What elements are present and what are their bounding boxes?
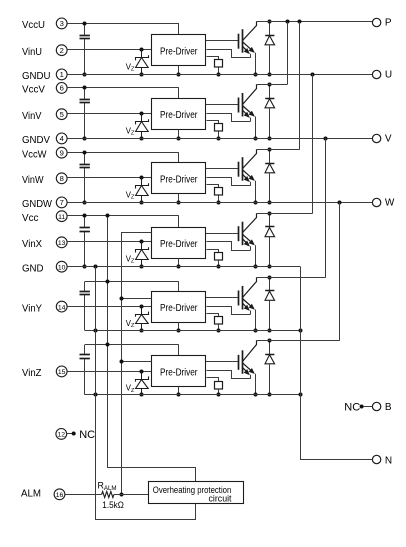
wire GNDU / U output row — [67, 74, 372, 76]
capacitor C4 — [80, 216, 90, 266]
junction diode top X — [268, 212, 272, 216]
NC node at terminal B — [344, 401, 372, 413]
junction V row / Y collector drop — [324, 137, 328, 141]
wire collector rail X — [256, 213, 312, 215]
svg-text:GNDU: GNDU — [22, 71, 51, 82]
wire VccX row — [67, 215, 179, 217]
junction cap bottom X — [83, 265, 87, 269]
wire pre-driver gnd stub W — [178, 194, 180, 202]
junction emitter-gnd Z — [254, 393, 258, 397]
capacitor C3 — [80, 152, 90, 202]
transistor IGBT Q4 — [239, 214, 257, 251]
wire VinU row — [67, 49, 151, 51]
wire Y emitter/gnd row — [85, 330, 301, 332]
svg-text:VccV: VccV — [22, 85, 45, 96]
overheating protection circuit — [149, 482, 244, 504]
junction diode bottom X — [268, 265, 272, 269]
capacitor C2 — [80, 88, 90, 139]
svg-text:14: 14 — [58, 304, 66, 311]
svg-text:VinZ: VinZ — [22, 368, 42, 379]
svg-text:Pre-Driver: Pre-Driver — [160, 303, 198, 314]
wire Vcc feed Z — [85, 344, 179, 346]
junction resistor-gnd X — [217, 265, 221, 269]
wire VinX row — [67, 241, 151, 243]
svg-text:VccU: VccU — [22, 20, 45, 31]
pin 15 label VinZ — [22, 366, 67, 379]
pin 1 label GNDU — [22, 69, 67, 82]
pin 14 label VinY — [22, 301, 67, 314]
wire emitter Z — [255, 374, 257, 395]
zener diode Vz V — [136, 114, 149, 138]
terminal N — [372, 455, 392, 466]
svg-text:ALM: ALM — [21, 489, 41, 500]
junction resistor-gnd U — [217, 73, 221, 77]
svg-text:11: 11 — [58, 214, 65, 221]
wire GNDW / W output row — [67, 202, 372, 204]
junction Vcc bus / Y feed — [106, 280, 110, 284]
wire pre-driver gnd stub Y — [178, 322, 180, 330]
wire GND row (pin 10) — [67, 266, 300, 268]
zener diode Vz U — [136, 50, 149, 74]
diode D1 — [265, 22, 275, 75]
wire emitter U — [255, 53, 257, 74]
svg-text:VinV: VinV — [22, 111, 42, 122]
svg-text:P: P — [385, 18, 392, 29]
svg-text:6: 6 — [60, 84, 64, 93]
wire gate drive W — [206, 168, 238, 170]
terminal U — [372, 70, 392, 81]
pin 6 label VccV — [22, 83, 67, 96]
junction N bus / Y row — [299, 329, 303, 333]
wire VccV row — [67, 87, 179, 89]
svg-text:7: 7 — [60, 198, 64, 207]
svg-text:15: 15 — [58, 369, 66, 376]
wire VinV row — [67, 113, 151, 115]
diode D2 — [265, 85, 275, 139]
junction diode bottom Y — [268, 329, 272, 333]
wire P to W-phase collector — [299, 22, 301, 150]
svg-text:VinY: VinY — [22, 303, 42, 314]
capacitor C1 — [80, 23, 90, 74]
wire VccU row — [67, 23, 179, 25]
wire gate drive Z — [206, 361, 238, 363]
junction alarm / ALM row — [120, 493, 124, 497]
junction zener top V — [140, 112, 144, 116]
op-amp pre-driver U6 — [152, 356, 206, 387]
junction gnd stub Y — [177, 329, 181, 333]
diode D6 — [265, 341, 275, 395]
wire alarm tap Z — [122, 361, 152, 363]
svg-text:VccW: VccW — [22, 150, 47, 161]
svg-text:Pre-Driver: Pre-Driver — [160, 239, 198, 250]
junction cap top W — [83, 151, 87, 155]
junction zener bottom U — [140, 73, 144, 77]
svg-text:13: 13 — [58, 240, 66, 247]
pin 11 label Vcc — [22, 211, 67, 224]
junction diode bottom W — [268, 201, 272, 205]
pin 2 label VinU — [22, 45, 67, 58]
diode D4 — [265, 213, 275, 266]
wire gate drive Y — [206, 297, 238, 299]
svg-text:N: N — [385, 456, 392, 467]
junction GND bus start — [94, 265, 98, 269]
resistor gate U — [207, 57, 223, 75]
resistor gate Z — [207, 378, 223, 395]
junction zener top Y — [140, 305, 144, 309]
junction alarm / Y tap — [120, 297, 124, 301]
junction Vcc bus / Z feed — [106, 343, 110, 347]
svg-text:Pre-Driver: Pre-Driver — [160, 46, 198, 57]
wire sense return X — [207, 242, 251, 251]
diode D5 — [265, 277, 275, 330]
svg-text:1.5kΩ: 1.5kΩ — [102, 500, 124, 510]
wire Vcc bus (low side) — [108, 216, 196, 482]
junction P rail / W-phase drop — [298, 20, 302, 24]
op-amp pre-driver U1 — [152, 35, 206, 66]
junction cap bottom V — [83, 137, 87, 141]
junction diode top V — [268, 83, 272, 87]
junction alarm / Z tap — [120, 360, 124, 364]
svg-text:4: 4 — [60, 134, 64, 143]
pin 4 label GNDV — [22, 133, 67, 146]
terminal W — [372, 198, 395, 209]
wire collector rail V — [256, 84, 287, 86]
junction zener bottom V — [140, 137, 144, 141]
wire sense return Z — [207, 371, 251, 379]
wire pre-driver gnd stub X — [178, 258, 180, 266]
junction gnd stub U — [177, 73, 181, 77]
svg-text:2: 2 — [60, 46, 64, 55]
junction cap top V — [83, 86, 87, 90]
junction cap top X — [83, 214, 87, 218]
wire emitter W — [255, 181, 257, 202]
junction N bus / Z row — [299, 393, 303, 397]
svg-text:GNDW: GNDW — [22, 199, 52, 210]
wire gate drive U — [206, 40, 238, 42]
resistor gate V — [207, 121, 223, 139]
junction emitter-gnd V — [254, 137, 258, 141]
wire gate drive X — [206, 233, 238, 235]
zener diode Vz W — [136, 178, 149, 202]
wire GND bus (low side) — [96, 267, 196, 520]
transistor IGBT Q3 — [239, 150, 257, 186]
junction resistor-gnd W — [217, 201, 221, 205]
zener diode Vz X — [136, 242, 149, 266]
junction gnd stub W — [177, 201, 181, 205]
junction Vcc bus start — [106, 214, 110, 218]
junction P rail / V-phase drop — [286, 20, 290, 24]
op-amp pre-driver U3 — [152, 163, 206, 194]
wire pre-driver gnd stub U — [178, 66, 180, 74]
svg-text:B: B — [385, 402, 392, 413]
wire sense return Y — [207, 307, 251, 315]
junction zener top Z — [140, 370, 144, 374]
wire Vcc stub into pre-driver X — [178, 216, 180, 228]
junction diode bottom V — [268, 137, 272, 141]
wire U to X collector — [312, 74, 314, 213]
junction gnd bus / Y row — [94, 329, 98, 333]
junction gnd stub V — [177, 137, 181, 141]
junction resistor-gnd V — [217, 137, 221, 141]
junction cap bottom U — [83, 73, 87, 77]
wire Vcc stub into pre-driver W — [178, 152, 180, 163]
svg-text:3: 3 — [60, 19, 64, 28]
wire collector rail Y — [256, 277, 326, 279]
junction zener top W — [140, 176, 144, 180]
wire gate drive V — [206, 104, 238, 106]
op-amp pre-driver U5 — [152, 292, 206, 323]
junction emitter-gnd X — [254, 265, 258, 269]
junction diode bottom Z — [268, 393, 272, 397]
junction diode top Y — [268, 276, 272, 280]
junction zener top U — [140, 48, 144, 52]
wire N bus — [301, 267, 373, 460]
svg-text:Vcc: Vcc — [22, 213, 39, 224]
junction emitter-gnd W — [254, 201, 258, 205]
wire VinZ row — [67, 371, 151, 373]
pin 13 label VinX — [22, 237, 67, 250]
zener diode Vz Y — [136, 306, 149, 330]
junction gnd bus / Z row — [94, 393, 98, 397]
junction emitter-gnd U — [254, 73, 258, 77]
junction cap bottom W — [83, 201, 87, 205]
svg-text:Pre-Driver: Pre-Driver — [160, 110, 198, 121]
wire pre-driver gnd stub V — [178, 129, 180, 138]
resistor gate Y — [207, 314, 223, 331]
junction resistor-gnd Z — [217, 393, 221, 397]
svg-text:W: W — [385, 198, 395, 209]
wire VinY row — [67, 306, 151, 308]
junction zener bottom W — [140, 201, 144, 205]
pin 12 NC — [56, 429, 95, 441]
resistor gate W — [207, 185, 223, 203]
wire VccW row — [67, 152, 179, 154]
op-amp pre-driver U4 — [152, 228, 206, 259]
pin 7 label GNDW — [22, 197, 67, 210]
wire alarm bus — [122, 233, 152, 495]
svg-text:9: 9 — [60, 149, 64, 158]
wire emitter X — [255, 245, 257, 266]
junction zener top X — [140, 240, 144, 244]
wire VinW row — [67, 177, 151, 179]
wire Vcc stub into pre-driver Z — [178, 345, 180, 356]
transistor IGBT Q2 — [239, 85, 257, 122]
wire pre-driver gnd stub Z — [178, 387, 180, 395]
svg-text:GND: GND — [22, 264, 44, 275]
svg-text:8: 8 — [60, 174, 64, 183]
svg-text:Pre-Driver: Pre-Driver — [160, 367, 198, 378]
op-amp pre-driver U2 — [152, 99, 206, 130]
wire W to Z collector — [339, 202, 341, 341]
transistor IGBT Q5 — [239, 278, 257, 315]
svg-text:GNDV: GNDV — [22, 135, 50, 146]
transistor IGBT Q1 — [239, 22, 257, 58]
pin 9 label VccW — [22, 147, 67, 160]
capacitor C6 — [80, 345, 90, 395]
transistor IGBT Q6 — [239, 341, 257, 379]
svg-text:1: 1 — [60, 70, 64, 79]
junction zener bottom X — [140, 265, 144, 269]
wire ALM row — [65, 494, 102, 496]
wire V to Y collector — [325, 138, 327, 277]
pin 10 label GND — [22, 261, 67, 274]
junction diode top Z — [268, 339, 272, 343]
resistor RALM — [102, 492, 149, 498]
wire Z emitter/gnd row — [85, 394, 301, 396]
junction resistor-gnd Y — [217, 329, 221, 333]
wire emitter Y — [255, 310, 257, 331]
wire sense return V — [207, 114, 251, 122]
svg-text:V: V — [385, 134, 392, 145]
junction diode top W — [268, 148, 272, 152]
junction W row / Z collector drop — [338, 201, 342, 205]
svg-text:16: 16 — [56, 492, 64, 499]
wire Vcc stub into pre-driver Y — [178, 282, 180, 292]
junction diode bottom U — [268, 73, 272, 77]
wire P to V-phase collector — [287, 22, 289, 85]
junction cap top U — [83, 22, 87, 26]
wire collector rail Z — [256, 340, 340, 342]
junction diode top U — [268, 20, 272, 24]
wire collector rail W — [256, 149, 299, 151]
svg-text:VinX: VinX — [22, 239, 42, 250]
terminal B — [372, 402, 392, 413]
svg-text:Pre-Driver: Pre-Driver — [160, 174, 198, 185]
wire GNDV / V output row — [67, 138, 372, 140]
svg-text:10: 10 — [58, 265, 66, 272]
junction gnd stub Z — [177, 393, 181, 397]
svg-text:12: 12 — [58, 432, 66, 439]
junction gnd stub X — [177, 265, 181, 269]
zener diode Vz Z — [136, 371, 149, 395]
wire alarm tap Y — [122, 298, 152, 300]
junction U row / X collector drop — [311, 73, 315, 77]
wire sense return U — [207, 50, 251, 58]
junction emitter-gnd Y — [254, 329, 258, 333]
diode D3 — [265, 150, 275, 203]
wire emitter V — [255, 117, 257, 139]
wire P rail — [256, 21, 372, 23]
svg-text:NC: NC — [79, 429, 95, 441]
pin 8 label VinW — [22, 173, 67, 186]
capacitor C5 — [80, 282, 90, 331]
junction zener bottom Y — [140, 329, 144, 333]
svg-text:U: U — [385, 70, 392, 81]
wire Vcc feed Y — [85, 281, 179, 283]
svg-text:VinU: VinU — [22, 47, 42, 58]
wire Vcc stub into pre-driver U — [178, 23, 180, 35]
wire Vcc stub into pre-driver V — [178, 88, 180, 99]
svg-text:VinW: VinW — [22, 175, 44, 186]
terminal V — [372, 134, 392, 145]
svg-text:5: 5 — [60, 110, 64, 119]
terminal P — [372, 18, 392, 29]
pin 16 label ALM — [21, 489, 65, 500]
svg-text:circuit: circuit — [209, 493, 233, 503]
wire sense return W — [207, 178, 251, 186]
resistor gate X — [207, 250, 223, 267]
junction zener bottom Z — [140, 393, 144, 397]
pin 5 label VinV — [22, 109, 67, 122]
svg-text:NC: NC — [344, 401, 360, 413]
pin 3 label VccU — [22, 18, 67, 31]
